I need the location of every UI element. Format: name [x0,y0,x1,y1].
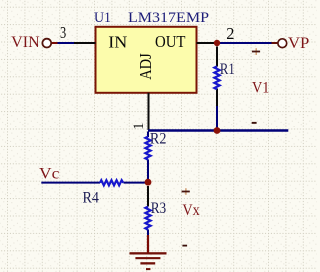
svg-text:1: 1 [131,123,147,130]
svg-text:V1: V1 [252,80,269,97]
svg-text:R1: R1 [220,61,235,78]
svg-text:IN: IN [108,33,127,52]
svg-text:R4: R4 [83,189,100,206]
svg-text:ADJ: ADJ [136,53,155,80]
svg-text:LM317EMP: LM317EMP [128,10,209,26]
svg-text:R3: R3 [151,200,167,217]
svg-text:Vc: Vc [39,165,59,182]
svg-text:VIN: VIN [11,34,40,51]
svg-text:R2: R2 [150,131,167,148]
svg-text:U1: U1 [94,10,111,26]
svg-text:2: 2 [226,24,234,43]
svg-text:3: 3 [60,23,66,42]
svg-text:Vx: Vx [182,202,200,219]
svg-text:VP: VP [288,35,309,52]
svg-text:OUT: OUT [155,32,186,51]
